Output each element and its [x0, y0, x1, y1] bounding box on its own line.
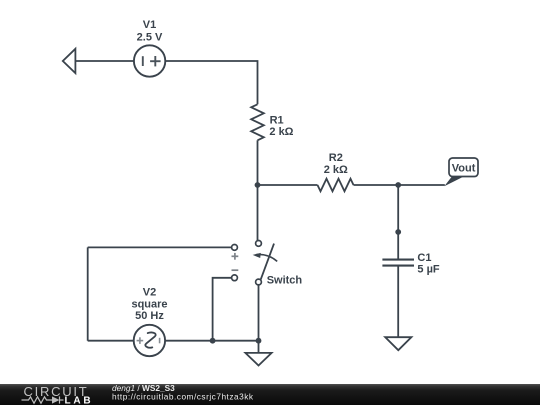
wire: Vout node down to C1 top	[397, 185, 399, 260]
junction: switch/ground/V2 bottom node	[256, 338, 262, 344]
wire: rail to switch plus control	[88, 246, 232, 248]
svg-text:http://circuitlab.com/csrjc7ht: http://circuitlab.com/csrjc7htza3kk	[112, 391, 254, 401]
wire: control minus riser	[213, 278, 232, 341]
resistor R2	[318, 179, 354, 192]
switch control polarity mark +	[232, 253, 239, 260]
svg-text:C1: C1	[417, 252, 431, 264]
voltage source V2 (square wave)	[134, 325, 165, 356]
svg-text:2 kΩ: 2 kΩ	[269, 126, 293, 138]
junction: node Vout/C1	[395, 182, 401, 188]
switch motion arrowhead	[253, 253, 261, 258]
wire: bottom rail node to V2 right terminal	[165, 340, 258, 342]
switch SW1	[256, 241, 278, 285]
switch control polarity mark -	[232, 269, 239, 271]
wire: node to R2 left	[258, 184, 318, 186]
wire: flag to V1 left terminal	[75, 60, 134, 62]
footer bar	[0, 384, 540, 405]
junction: V2/control-minus node	[210, 338, 216, 344]
svg-text:V2: V2	[143, 287, 156, 299]
ground (C1 branch)	[385, 337, 411, 350]
junction: C1 top terminal	[395, 229, 401, 235]
net flag Vout	[444, 158, 478, 186]
svg-text:5 µF: 5 µF	[417, 264, 440, 276]
svg-text:50 Hz: 50 Hz	[135, 310, 164, 322]
capacitor C1	[382, 260, 414, 266]
wire: V1 right terminal to top-right corner	[165, 61, 257, 104]
logo resistor-diode glyph	[22, 396, 64, 403]
svg-text:R2: R2	[329, 152, 343, 164]
svg-text:Switch: Switch	[267, 275, 303, 287]
ground (switch branch)	[245, 353, 271, 366]
svg-text:square: square	[131, 298, 167, 310]
wire: C1 bottom to ground	[397, 266, 399, 338]
svg-text:LAB: LAB	[65, 395, 94, 405]
wire: V2 left terminal to left rail	[88, 340, 134, 342]
svg-text:2.5 V: 2.5 V	[137, 32, 163, 44]
svg-text:Vout: Vout	[452, 162, 476, 174]
switch control pins	[232, 245, 238, 281]
resistor R1	[251, 104, 264, 140]
svg-text:2 kΩ: 2 kΩ	[324, 164, 348, 176]
wire: left rail up	[87, 247, 89, 340]
wire: R1 bottom through node down to switch top	[257, 140, 259, 240]
wire: switch bottom to ground node	[258, 285, 260, 353]
svg-text:V1: V1	[143, 19, 156, 31]
junction: node R1/R2/switch	[255, 182, 261, 188]
node flag (input terminal arrow)	[63, 49, 76, 73]
voltage source V1	[134, 45, 165, 76]
svg-text:R1: R1	[270, 114, 284, 126]
wire: R2 right to Vout flag	[354, 184, 445, 186]
